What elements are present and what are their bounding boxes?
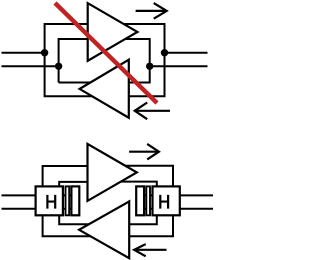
wire left inner branch to amp A2 upper output xyxy=(59,82,95,84)
wire right outer loop to amp B2 lower input xyxy=(128,215,173,236)
winding bar right narrow xyxy=(146,186,150,215)
wire right inner loop to amp B2 upper input xyxy=(128,215,157,224)
wire left inner loop to amp B1 lower input xyxy=(59,182,90,187)
wire left pair lower xyxy=(2,65,59,67)
hybrid H2 box (right) xyxy=(153,186,180,215)
arrow left direction (bottom figure bottom) xyxy=(134,244,166,256)
op-amp A1 (right-pointing amplifier) xyxy=(88,3,138,61)
arrow right direction (top) xyxy=(136,3,167,19)
node right lower junction xyxy=(146,63,153,70)
label H2 xyxy=(159,195,169,209)
arrow left direction (bottom) xyxy=(135,103,170,120)
wire amp B1 upper output to right outer loop xyxy=(120,166,173,187)
wire right pair upper xyxy=(180,194,213,196)
wire left outer loop to amp B1 upper input xyxy=(43,166,90,186)
wire right pair lower xyxy=(180,208,213,210)
wire right pair lower xyxy=(150,65,208,67)
op-amp A2 (left-pointing amplifier) xyxy=(80,60,129,118)
arrow right direction (bottom figure top) xyxy=(129,144,159,160)
op-amp B2 (left-pointing amplifier) xyxy=(79,201,129,258)
wire left pair upper xyxy=(2,52,45,54)
wire hybrid H1 to winding bars upper stub xyxy=(63,194,78,196)
red prohibition stroke xyxy=(55,3,157,103)
node left lower junction xyxy=(55,63,62,70)
wire hybrid H1 to winding bars lower stub xyxy=(63,208,78,210)
wire winding bars to hybrid H2 lower stub xyxy=(138,208,153,210)
wire left inner branch (junction up to amp A1 lower input, down to amp A2 upper output) xyxy=(59,39,90,83)
winding bar left wide xyxy=(71,186,79,215)
wire amp B1 lower output to right inner loop xyxy=(116,182,157,187)
label H1 xyxy=(46,195,56,209)
wire amp A1 upper output to right outer branch xyxy=(94,24,165,96)
wire left outer branch (junction up to amp A1 upper input, down to amp A2 lower output) xyxy=(45,24,95,96)
winding bar left narrow xyxy=(66,186,70,215)
node right upper junction xyxy=(161,49,168,56)
wire winding bars to hybrid H2 upper stub xyxy=(138,194,153,196)
winding bar right wide xyxy=(136,186,144,215)
wire left outer loop to amp B2 lower output xyxy=(43,215,93,236)
wire left inner loop to amp B2 upper output xyxy=(59,215,91,224)
wire left pair upper xyxy=(2,194,36,196)
op-amp B1 (right-pointing amplifier) xyxy=(88,144,137,201)
hybrid H1 box (left) xyxy=(36,186,63,215)
wire right pair upper xyxy=(165,52,208,54)
node left upper junction xyxy=(41,49,48,56)
wire left pair lower xyxy=(2,208,36,210)
wire amp A1 lower output to right inner branch xyxy=(124,39,150,83)
